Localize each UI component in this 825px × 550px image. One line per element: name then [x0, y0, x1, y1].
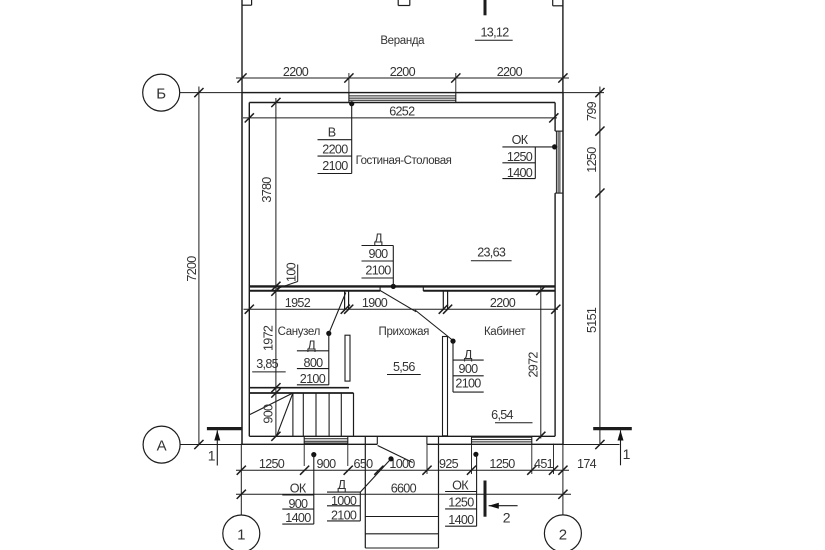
- flag OK 1250/1400 for right wall window: [552, 144, 557, 149]
- bathroom bottom wall upper face: [249, 387, 349, 389]
- section mark 2 top bar: [484, 0, 487, 15]
- axis circle B: [143, 74, 180, 111]
- svg-text:2100: 2100: [331, 509, 357, 523]
- svg-text:2100: 2100: [455, 377, 481, 391]
- window OK 1250 bottom wall sash lines: [472, 436, 532, 438]
- left wall outer face: [241, 93, 243, 445]
- svg-text:2100: 2100: [322, 159, 348, 173]
- svg-text:900: 900: [317, 457, 337, 471]
- bottom dimension row 2 overall 6600: [236, 493, 571, 495]
- svg-text:ОК: ОК: [452, 479, 469, 493]
- svg-text:Веранда: Веранда: [380, 35, 425, 47]
- svg-text:2100: 2100: [365, 264, 391, 278]
- flag OK 1250/1400 bottom right window: [473, 452, 478, 457]
- svg-text:2200: 2200: [497, 65, 523, 79]
- right dimension column 799/1250/5151: [599, 87, 601, 445]
- svg-text:650: 650: [354, 457, 374, 471]
- window OK 900 jambs: [303, 436, 305, 444]
- axis line 2 (vertical below house): [562, 444, 564, 515]
- bathroom door leaf rectangle: [345, 335, 350, 381]
- right wall inner face lower: [554, 193, 556, 436]
- middle wall upper face (thick): [249, 285, 555, 287]
- living room door leaf diagonal: [380, 291, 416, 312]
- svg-text:1250: 1250: [489, 457, 515, 471]
- axis circle A: [143, 426, 180, 463]
- svg-text:900: 900: [262, 404, 276, 424]
- flag OK 900/1400 bottom left window: [311, 452, 316, 457]
- svg-text:2200: 2200: [322, 142, 348, 156]
- flag V 2200/2100 for veranda window: [349, 101, 354, 106]
- middle wall lower face left of door: [249, 290, 380, 292]
- svg-text:Д: Д: [374, 232, 383, 246]
- svg-text:6252: 6252: [389, 104, 415, 118]
- svg-text:ОК: ОК: [512, 133, 529, 147]
- top dimension row 2200x3: [236, 77, 569, 79]
- svg-text:1: 1: [237, 527, 245, 544]
- svg-text:1400: 1400: [507, 166, 533, 180]
- svg-text:799: 799: [585, 101, 599, 121]
- office door leaf diagonal: [415, 310, 453, 341]
- svg-text:3,85: 3,85: [256, 357, 278, 371]
- veranda left wall: [241, 0, 243, 93]
- window OK right wall jambs: [555, 130, 563, 132]
- axis line A right segment: [560, 444, 620, 446]
- bottom wall outer face right segment: [427, 443, 563, 445]
- svg-text:23,63: 23,63: [477, 245, 506, 259]
- svg-text:900: 900: [459, 362, 479, 376]
- veranda column post right: [552, 0, 554, 6]
- svg-text:451: 451: [534, 457, 554, 471]
- svg-text:3780: 3780: [260, 177, 274, 203]
- svg-text:1250: 1250: [259, 457, 285, 471]
- wall thickness dimension 100 with leader: [297, 265, 299, 282]
- axis circle 1: [223, 515, 260, 550]
- svg-text:1400: 1400: [285, 511, 311, 525]
- flag D 1000/2100 entrance door with leader: [388, 456, 393, 461]
- svg-text:1000: 1000: [331, 494, 357, 508]
- middle wall door jambs: [379, 286, 381, 291]
- svg-text:2200: 2200: [390, 65, 416, 79]
- svg-text:Прихожая: Прихожая: [379, 326, 430, 338]
- stair flight right edge: [353, 393, 355, 436]
- right wall inner face upper: [554, 103, 556, 132]
- office wall stub (vertical, x=443.3/447.6): [442, 292, 444, 310]
- svg-text:1250: 1250: [507, 150, 533, 164]
- svg-text:900: 900: [369, 247, 389, 261]
- svg-text:1972: 1972: [262, 325, 276, 351]
- svg-text:2972: 2972: [527, 352, 541, 378]
- svg-text:В: В: [328, 126, 336, 140]
- stair winder diagonal 1: [250, 393, 293, 415]
- svg-text:6600: 6600: [391, 481, 417, 495]
- svg-text:2: 2: [503, 510, 511, 526]
- bathroom wall stub (vertical, x=344.6/348.6): [344, 292, 346, 310]
- svg-text:1900: 1900: [362, 296, 388, 310]
- svg-text:2100: 2100: [300, 372, 326, 386]
- veranda right wall: [562, 0, 564, 93]
- svg-text:Гостиная-Столовая: Гостиная-Столовая: [356, 155, 452, 167]
- svg-text:7200: 7200: [185, 256, 199, 282]
- svg-text:А: А: [157, 438, 167, 455]
- svg-text:2200: 2200: [283, 65, 309, 79]
- svg-text:800: 800: [304, 356, 324, 370]
- middle wall lower face right of door: [423, 290, 555, 292]
- section 1 right arrow: [620, 430, 622, 465]
- window OK 900 jamb extension lines: [303, 444, 305, 466]
- svg-text:1250: 1250: [585, 147, 599, 173]
- flag D 900/2100 living room door: [391, 284, 396, 289]
- svg-text:1400: 1400: [448, 513, 474, 527]
- interior vertical dimension 1972/900 (same line): [271, 383, 280, 392]
- svg-text:5151: 5151: [585, 307, 599, 333]
- entrance door leaf diagonal: [378, 446, 413, 463]
- section 2 mark bottom: thick bar: [484, 481, 487, 517]
- axis line A left segment: [180, 444, 249, 446]
- section 2 arrow: [489, 505, 518, 507]
- veranda column post middle: [397, 0, 399, 6]
- svg-text:1250: 1250: [448, 496, 474, 510]
- porch right edge: [438, 436, 440, 548]
- porch left edge: [364, 436, 366, 548]
- svg-text:1: 1: [208, 447, 216, 463]
- section 1 left arrow: [216, 430, 218, 465]
- top wall outer face on axis B: [242, 92, 563, 94]
- svg-text:Санузел: Санузел: [278, 326, 320, 338]
- flag D 800/2100 bathroom door with leader: [326, 331, 331, 336]
- interior vertical dimension 3780: [275, 98, 277, 436]
- bottom wall outer face left segment: [242, 443, 377, 445]
- section 1 mark right: thick bar: [593, 427, 632, 430]
- window V top wall: 3 sash lines: [349, 95, 456, 97]
- window OK 1250 jambs: [471, 436, 473, 444]
- left wall inner face: [248, 103, 250, 437]
- svg-text:13,12: 13,12: [480, 25, 509, 39]
- top wall inner face: [249, 102, 555, 104]
- svg-text:1952: 1952: [285, 296, 311, 310]
- porch step lines: [365, 516, 438, 518]
- svg-text:5,56: 5,56: [393, 360, 415, 374]
- left overall dimension 7200 vertical line: [198, 87, 200, 445]
- window OK right wall: sash lines: [555, 131, 557, 193]
- veranda column post left: [251, 0, 253, 5]
- svg-text:2: 2: [559, 526, 567, 543]
- window V jambs: [348, 93, 350, 103]
- svg-text:174: 174: [577, 457, 597, 471]
- stair treads: [292, 393, 294, 436]
- svg-text:100: 100: [285, 262, 299, 282]
- svg-text:ОК: ОК: [290, 482, 307, 496]
- axis circle 2: [544, 515, 581, 550]
- window OK 900 bottom wall sash lines: [304, 438, 348, 440]
- svg-text:2200: 2200: [490, 296, 516, 310]
- axis line 1 (vertical below house): [240, 444, 242, 515]
- svg-text:Кабинет: Кабинет: [484, 326, 526, 338]
- svg-text:925: 925: [439, 457, 459, 471]
- svg-text:Б: Б: [156, 86, 166, 103]
- svg-text:Д: Д: [307, 338, 316, 352]
- svg-text:Д: Д: [464, 348, 473, 362]
- bottom wall inner face segments: [249, 435, 555, 437]
- flag D 900/2100 office door with leader: [450, 339, 455, 344]
- bathroom bottom wall lower face / stair top: [249, 392, 353, 394]
- svg-text:6,54: 6,54: [491, 408, 513, 422]
- extension lines bottom row: [426, 444, 428, 474]
- axis line B (horizontal grid line, y=92.6): [180, 92, 604, 94]
- interior dimension row 1952 1900 2200: [244, 308, 559, 310]
- interior dimension 6252: [243, 117, 557, 119]
- extension lines for top row: [348, 73, 350, 93]
- svg-text:1: 1: [623, 446, 631, 462]
- stair winder diagonal 2: [276, 393, 293, 436]
- office partition wall rectangle: [443, 337, 448, 436]
- bottom dimension row 1: [236, 469, 569, 471]
- svg-text:900: 900: [288, 497, 308, 511]
- interior vertical dimension 2972: [540, 287, 542, 439]
- section 1 mark left: thick bar: [207, 427, 242, 430]
- entrance door jambs: [376, 436, 378, 444]
- svg-text:Д: Д: [337, 478, 346, 492]
- right wall outer face: [562, 93, 564, 445]
